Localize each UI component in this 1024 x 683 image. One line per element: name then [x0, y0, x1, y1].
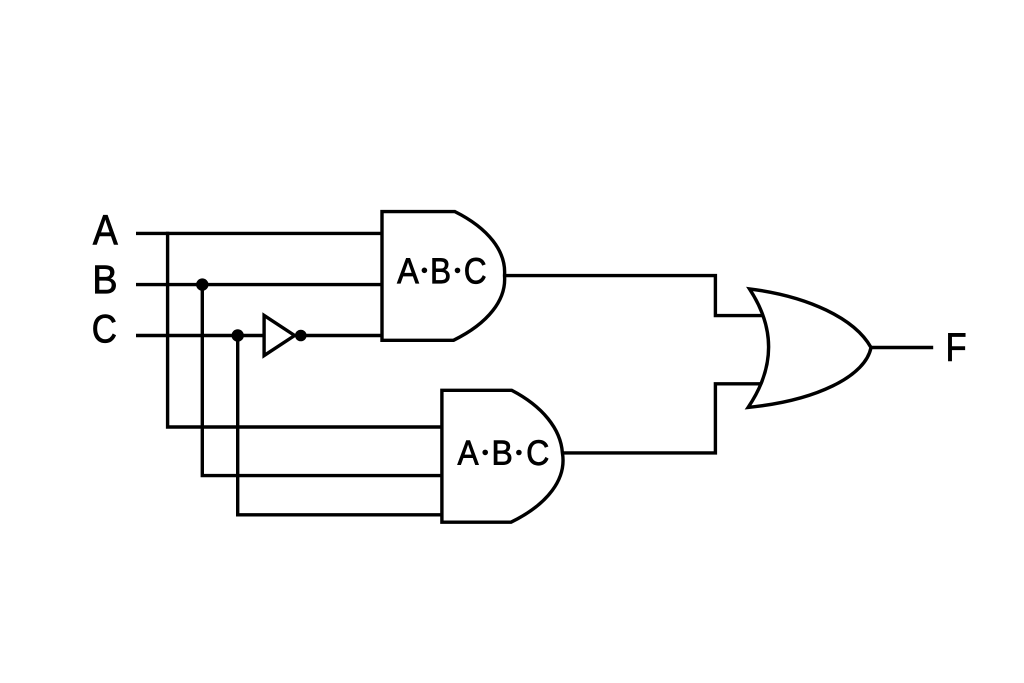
- wire C input: [136, 334, 264, 337]
- wire inverter output to U2: [294, 334, 384, 337]
- wire U2 output to OR top input: [505, 276, 764, 316]
- node B junction: [196, 278, 208, 290]
- wire A branch to U3: [168, 232, 444, 427]
- or-gate U4: [748, 289, 871, 408]
- label U3 dot 1: [482, 450, 488, 456]
- label U2 letter C: [465, 258, 485, 284]
- wire U3 output to OR bottom input: [562, 384, 762, 453]
- input label C: [94, 315, 116, 343]
- label U3 letter C: [528, 440, 548, 465]
- wire C branch to U3: [238, 336, 444, 515]
- label U2 letter A: [397, 258, 419, 283]
- node C junction: [232, 329, 244, 341]
- wire B branch to U3: [202, 285, 444, 476]
- label U3 letter A: [458, 441, 479, 465]
- label U2 letter B: [433, 258, 450, 283]
- label U2 dot 2: [455, 268, 461, 274]
- label U2 dot 1: [422, 268, 428, 274]
- and-gate U3: [442, 390, 563, 522]
- and-gate U2: [382, 212, 505, 341]
- label U3 letter B: [494, 441, 511, 465]
- wire A input: [136, 232, 384, 235]
- wire B input: [136, 283, 384, 286]
- input label A: [93, 215, 118, 244]
- inverter U1: [264, 315, 295, 355]
- input label B: [95, 266, 115, 294]
- label U3 dot 2: [516, 450, 522, 456]
- output label F: [948, 333, 965, 360]
- wire F output: [871, 346, 933, 349]
- inverter output dot: [295, 330, 307, 342]
